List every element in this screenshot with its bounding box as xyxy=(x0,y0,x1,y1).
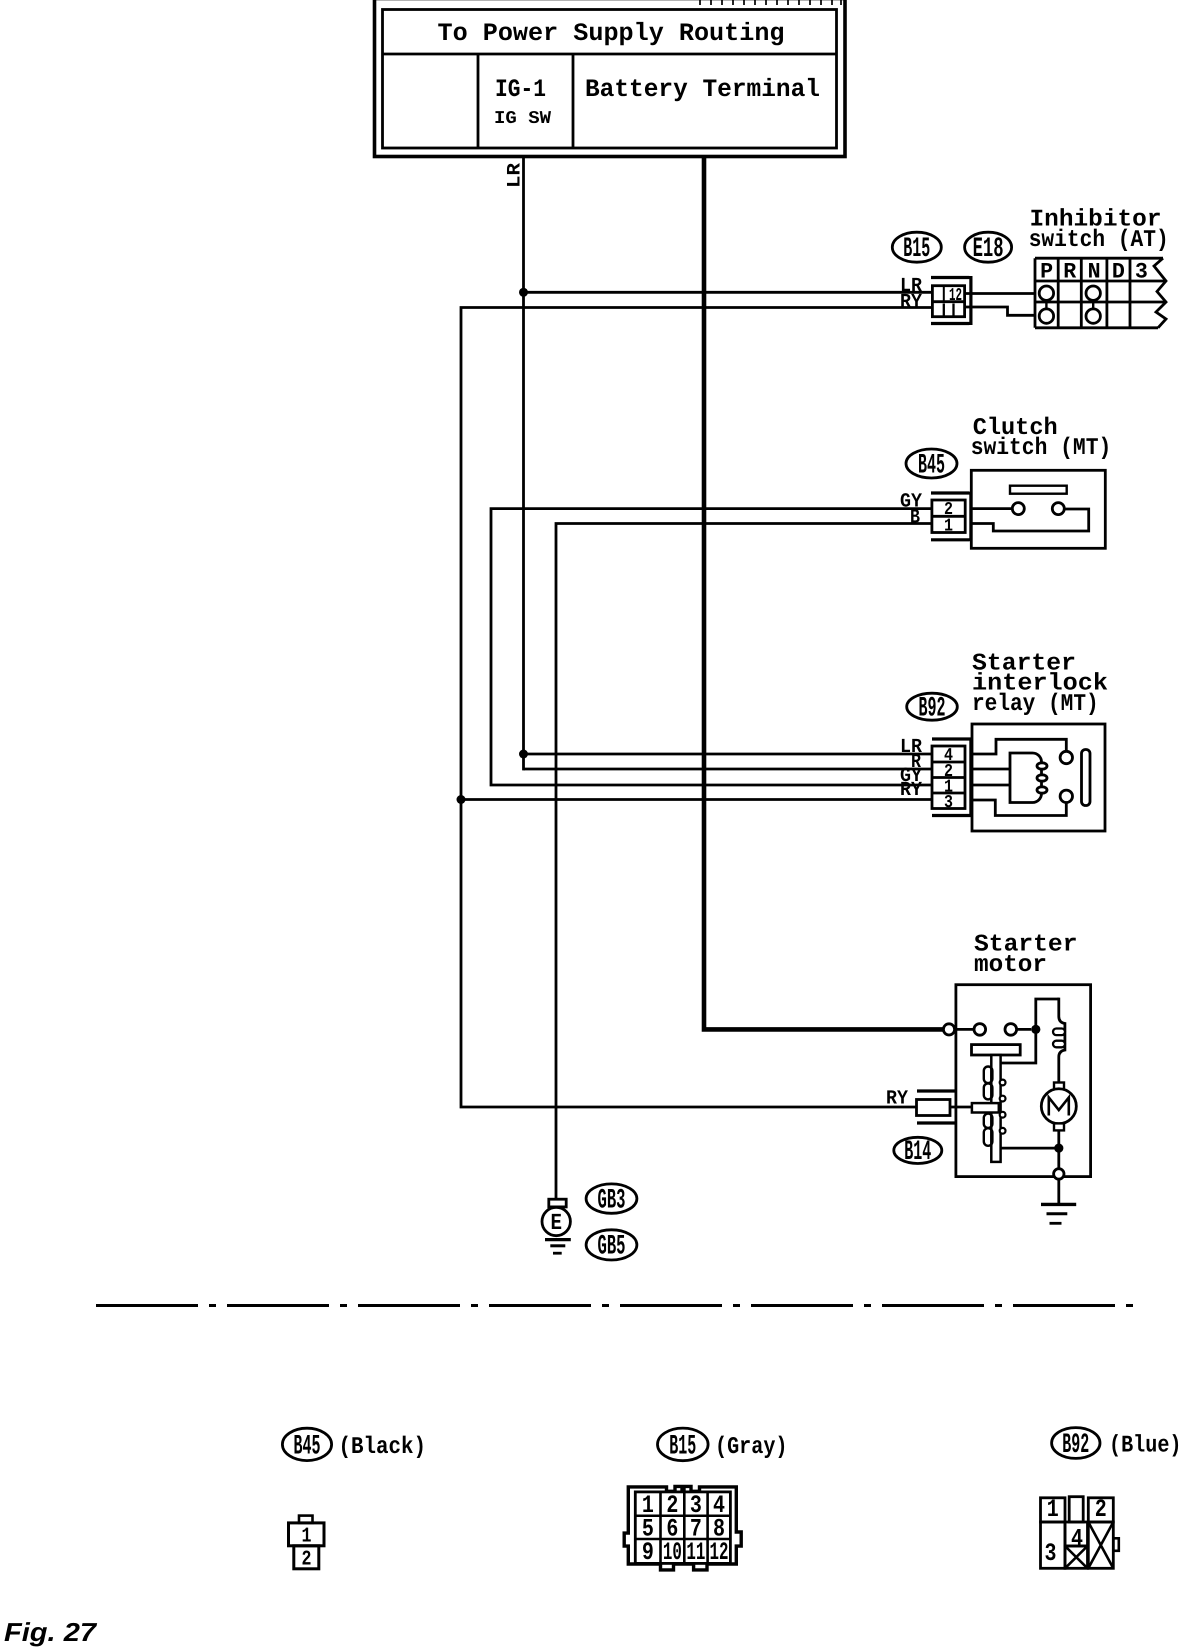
power supply routing box outer xyxy=(375,0,846,157)
wire LR to inhibitor connector xyxy=(524,291,932,294)
svg-text:4: 4 xyxy=(1071,1525,1083,1554)
RY connector inner box xyxy=(917,1100,951,1116)
connector B15 terminal ticks xyxy=(944,304,954,317)
plunger stem xyxy=(991,1055,1000,1162)
solenoid coil loops xyxy=(1053,1029,1065,1036)
legend B92 cell 2 xyxy=(1088,1498,1113,1522)
svg-text:11: 11 xyxy=(686,1538,705,1567)
junction dot RY to relay xyxy=(457,795,466,804)
wire motor to lower junction xyxy=(1057,1130,1060,1169)
ground E connector rect xyxy=(549,1199,566,1207)
junction dot LR to inhibitor xyxy=(519,288,528,297)
legend B15 pin grid xyxy=(635,1492,730,1564)
legend B92 cell 4 xyxy=(1065,1522,1088,1546)
wire B15 connector to P bottom with jog xyxy=(966,307,1035,315)
connector B92 bracket at relay xyxy=(932,737,971,817)
separator dash-dot line xyxy=(96,1304,1140,1307)
relay internal wire pin1 to coil xyxy=(972,784,1010,787)
grid contact circles N column xyxy=(1086,286,1100,300)
svg-text:RY: RY xyxy=(900,779,922,802)
legend B92 crossed cell small xyxy=(1065,1546,1088,1568)
wire B15 connector to P top xyxy=(966,292,1035,295)
legend B15 housing xyxy=(624,1486,741,1570)
relay internal wire pin3 to lower contact xyxy=(972,800,1066,816)
wire dot up to solenoid coil xyxy=(1036,999,1059,1029)
svg-text:P: P xyxy=(1040,260,1053,285)
relay internal wire pin4 to upper contact xyxy=(972,739,1066,754)
svg-text:IG-1: IG-1 xyxy=(495,75,546,104)
wire LR vertical from IG-1 xyxy=(522,157,525,770)
legend B92 narrow cell xyxy=(1069,1497,1083,1522)
connector B15 top divider xyxy=(943,286,945,302)
legend B92 cell 3 xyxy=(1041,1522,1066,1568)
svg-text:E18: E18 xyxy=(973,234,1004,265)
clutch contact circles xyxy=(1012,503,1024,515)
inhibitor switch grid PRND3 xyxy=(1035,258,1166,328)
starter junction dot xyxy=(1031,1025,1040,1034)
relay upper contact circle xyxy=(1060,751,1072,763)
plunger T bar xyxy=(972,1045,1021,1055)
connector B15 bracket at inhibitor xyxy=(931,276,971,325)
svg-text:LR: LR xyxy=(504,162,526,188)
moving contact plate xyxy=(972,1103,999,1112)
connector B15 inner box xyxy=(932,286,964,317)
solenoid coil on feed wire xyxy=(1059,998,1065,1083)
cell divider 1 xyxy=(477,54,480,148)
svg-text:2: 2 xyxy=(1095,1495,1107,1524)
motor lower terminal xyxy=(1054,1123,1064,1130)
wire dot down to plunger xyxy=(1001,1029,1036,1063)
clutch switch box xyxy=(971,470,1105,548)
ground E circle xyxy=(542,1207,570,1235)
relay box xyxy=(972,724,1105,831)
svg-text:(Gray): (Gray) xyxy=(715,1434,788,1461)
svg-text:RY: RY xyxy=(886,1088,908,1111)
svg-text:switch (AT): switch (AT) xyxy=(1029,227,1169,254)
svg-text:9: 9 xyxy=(642,1538,654,1567)
svg-text:IG SW: IG SW xyxy=(494,109,551,129)
svg-text:Battery Terminal: Battery Terminal xyxy=(585,75,820,104)
motor upper terminal xyxy=(1054,1083,1064,1090)
relay internal wire pin2 to coil xyxy=(972,768,1010,771)
battery terminal circle at box edge xyxy=(943,1024,954,1035)
svg-text:(Blue): (Blue) xyxy=(1109,1433,1182,1460)
svg-text:motor: motor xyxy=(974,952,1047,979)
relay coil xyxy=(1010,753,1042,803)
clutch internal wire GY xyxy=(971,507,1012,510)
svg-text:GB3: GB3 xyxy=(598,1185,626,1216)
connector B92 inner box xyxy=(932,746,965,809)
svg-text:RY: RY xyxy=(900,291,922,314)
wire LR to relay pin 4 xyxy=(524,753,932,756)
power supply routing box inner xyxy=(383,10,837,149)
legend B45 connector cell 2 xyxy=(294,1546,319,1569)
relay lower contact circle xyxy=(1060,790,1072,802)
grid contact circles P column xyxy=(1039,286,1053,300)
svg-text:(Black): (Black) xyxy=(339,1434,427,1461)
legend ellipse B92 xyxy=(1052,1428,1100,1459)
hatch ticks on box top edge xyxy=(700,0,841,5)
svg-text:1: 1 xyxy=(302,1525,312,1548)
starter motor box xyxy=(956,985,1091,1177)
connector B92 dividers xyxy=(932,762,965,793)
legend B92 side tab xyxy=(1113,1538,1119,1551)
lower junction dot xyxy=(1054,1144,1063,1153)
ground E bars xyxy=(545,1238,571,1241)
cell divider 2 xyxy=(572,54,575,148)
starter ground symbol xyxy=(1041,1203,1076,1206)
svg-text:2: 2 xyxy=(302,1549,312,1572)
starter internal wire to contacts xyxy=(956,1028,1031,1031)
svg-text:3: 3 xyxy=(944,793,953,813)
wire R to relay pin 2 xyxy=(524,768,932,771)
svg-text:3: 3 xyxy=(1135,260,1148,285)
legend B92 cell 1 xyxy=(1041,1498,1066,1522)
ellipse GB3 xyxy=(586,1184,637,1213)
wire battery thick vertical and horizontal to starter motor xyxy=(704,157,944,1029)
starter contact circles xyxy=(974,1024,986,1036)
ellipse B14 xyxy=(894,1137,942,1163)
svg-text:GB5: GB5 xyxy=(598,1232,626,1263)
wire B from clutch down to ground E xyxy=(556,524,931,1200)
relay armature bar xyxy=(1082,750,1091,806)
svg-text:B92: B92 xyxy=(1062,1430,1089,1461)
svg-text:B45: B45 xyxy=(294,1432,321,1463)
connector B45 inner box xyxy=(932,500,965,533)
svg-text:12: 12 xyxy=(949,286,962,306)
svg-text:R: R xyxy=(1063,260,1077,285)
ground terminal circle on box edge xyxy=(1054,1169,1064,1179)
connector B15 divider xyxy=(932,300,964,303)
header divider xyxy=(383,53,837,56)
inhibitor grid torn edge xyxy=(1154,258,1166,328)
svg-text:B92: B92 xyxy=(919,694,946,725)
connector B45 divider xyxy=(932,515,965,518)
svg-text:switch (MT): switch (MT) xyxy=(971,435,1112,462)
junction dot LR to relay pin 4 xyxy=(519,750,528,759)
wire RY to relay pin 3 xyxy=(461,798,931,801)
svg-text:D: D xyxy=(1112,260,1125,285)
svg-text:B: B xyxy=(910,506,920,529)
wire plunger to lower junction xyxy=(1001,1147,1059,1150)
legend B45 connector tab xyxy=(299,1516,313,1523)
svg-text:B14: B14 xyxy=(904,1137,931,1168)
wire RY from inhibitor connector down xyxy=(461,308,931,1108)
wire GY clutch to relay pin 1 xyxy=(491,509,931,785)
svg-text:1: 1 xyxy=(1047,1495,1059,1524)
clutch pedal slot xyxy=(1010,486,1067,494)
svg-text:3: 3 xyxy=(1045,1539,1057,1568)
ellipse B45 xyxy=(906,449,957,478)
svg-text:10: 10 xyxy=(663,1538,682,1567)
relay coil loops xyxy=(1037,763,1047,769)
ellipse B92 xyxy=(907,693,958,720)
winding right knobs xyxy=(1000,1080,1006,1086)
svg-text:N: N xyxy=(1088,260,1101,285)
svg-text:1: 1 xyxy=(944,517,953,537)
winding left loops xyxy=(984,1067,993,1084)
svg-text:B45: B45 xyxy=(918,451,945,482)
motor circle xyxy=(1041,1089,1076,1124)
RY connector bracket at starter xyxy=(917,1091,956,1123)
svg-text:relay (MT): relay (MT) xyxy=(972,691,1099,718)
ellipse GB5 xyxy=(586,1230,637,1260)
legend B92 crossed cell tall xyxy=(1088,1522,1113,1568)
svg-text:12: 12 xyxy=(710,1538,729,1567)
ellipse B15 xyxy=(892,232,941,262)
legend B45 connector cell 1 xyxy=(289,1523,325,1546)
clutch internal wire B xyxy=(971,509,1088,531)
ellipse E18 xyxy=(965,232,1012,262)
svg-text:B15: B15 xyxy=(669,1432,696,1463)
wire RY into box xyxy=(950,1106,972,1109)
svg-text:Fig. 27: Fig. 27 xyxy=(4,1617,98,1647)
svg-text:To Power Supply Routing: To Power Supply Routing xyxy=(438,19,785,48)
motor M glyph xyxy=(1049,1098,1069,1116)
svg-text:B15: B15 xyxy=(903,234,930,265)
connector B45 bracket at clutch xyxy=(931,492,971,542)
svg-text:E: E xyxy=(550,1210,562,1236)
wire to starter ground xyxy=(1057,1179,1060,1203)
legend ellipse B15 xyxy=(658,1428,709,1461)
legend ellipse B45 xyxy=(282,1428,331,1460)
